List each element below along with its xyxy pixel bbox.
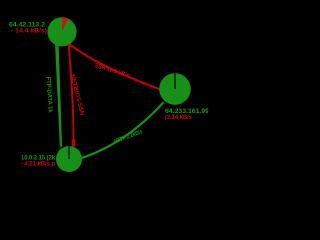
wire link C red node1-node2 [70,44,160,89]
node N3 pie [56,146,82,172]
node N1 pie [47,17,76,46]
wire link D green node3-node2 [80,102,164,158]
svg-text:- 14.4 kB/s): - 14.4 kB/s) [11,29,47,35]
wire link C base stub at node1 [67,42,72,48]
wire link A green node1-node3 [55,44,62,147]
svg-text:(2.14 kB/s: (2.14 kB/s [165,115,193,121]
svg-text:- 4.21 kB/s p: - 4.21 kB/s p [21,162,55,168]
node N2 pie [159,73,191,105]
wire link B red node1-node3 [69,45,74,146]
wire link B arrowhead stub at node3 [72,140,75,147]
